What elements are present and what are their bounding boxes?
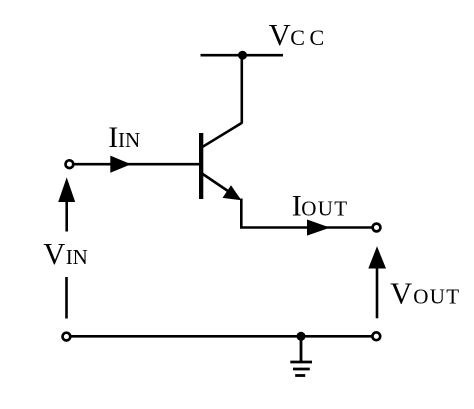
arrow IOUT current xyxy=(307,220,330,236)
svg-text:V: V xyxy=(269,18,291,52)
wire emitter diagonal xyxy=(202,174,239,199)
svg-text:IN: IN xyxy=(118,128,140,152)
wire base xyxy=(73,163,200,166)
arrow IIN current xyxy=(110,156,131,173)
svg-text:I: I xyxy=(292,189,302,222)
wire ground rail xyxy=(71,335,373,338)
ground symbol xyxy=(290,336,312,375)
wire VCC rail xyxy=(201,54,284,57)
wire collector diagonal xyxy=(202,123,242,147)
svg-text:I: I xyxy=(108,121,118,154)
node output terminal xyxy=(373,224,381,232)
node junction at ground xyxy=(297,332,306,341)
wire collector vertical xyxy=(241,55,244,123)
svg-text:OUT: OUT xyxy=(301,196,348,220)
node input terminal xyxy=(66,160,74,168)
node bottom-left terminal xyxy=(63,333,71,341)
svg-text:OUT: OUT xyxy=(413,285,460,309)
transistor Q1 base bar xyxy=(199,133,203,199)
node bottom-right terminal xyxy=(372,332,380,340)
svg-text:V: V xyxy=(390,277,412,311)
arrow VIN voltage xyxy=(58,177,75,202)
svg-text:V: V xyxy=(43,237,65,271)
svg-text:CC: CC xyxy=(290,25,328,50)
node junction at VCC xyxy=(238,51,247,60)
wire IOUT xyxy=(240,226,373,229)
svg-text:IN: IN xyxy=(66,245,88,269)
wire emitter vertical xyxy=(240,199,243,228)
arrow VOUT voltage xyxy=(368,246,386,268)
transistor Q1 emitter arrowhead xyxy=(223,185,242,200)
wire VIN lower segment xyxy=(65,277,68,319)
